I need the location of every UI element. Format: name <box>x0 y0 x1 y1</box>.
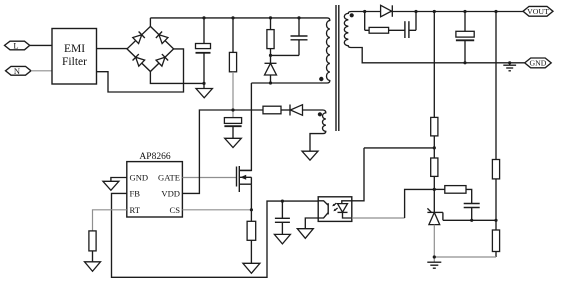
wire source down <box>250 184 252 221</box>
terminal L <box>5 41 30 51</box>
svg-text:FB: FB <box>130 189 141 199</box>
junction (204,17.9) <box>202 16 205 19</box>
capacitor C2 snubber <box>271 18 308 56</box>
junction (204,83.4) <box>202 82 205 85</box>
diode D4 VDD <box>281 105 303 116</box>
T1 secondary winding + VOUT rail <box>344 12 524 63</box>
svg-text:CS: CS <box>169 205 180 215</box>
junction (434.3,11.5) <box>433 10 436 13</box>
junction (465,11.5) <box>463 10 466 13</box>
IC U1 AP8266 <box>127 152 183 217</box>
VDD pin wire <box>182 110 263 193</box>
capacitor C1 bulk <box>196 18 211 84</box>
junction (270.5,17.9) <box>269 16 272 19</box>
wire opto anode up <box>352 148 435 201</box>
FB pin wire to bottom rail and opto <box>112 193 319 277</box>
resistor R7 current sense <box>243 221 260 273</box>
terminal GND <box>525 58 552 68</box>
wire EMI bottom to bridge right <box>97 49 184 92</box>
svg-text:GND: GND <box>130 173 149 183</box>
capacitor C4 FB <box>274 201 290 244</box>
junction (416,11.5) <box>414 10 417 13</box>
terminal VOUT <box>523 6 553 16</box>
resistor R1 startup <box>229 18 236 110</box>
terminal N <box>6 66 32 76</box>
resistor R5 sec snubber <box>365 12 405 34</box>
wire L to EMI <box>30 44 52 46</box>
polarity dot aux <box>318 112 322 116</box>
EMI filter box U2 <box>52 29 97 85</box>
svg-text:GATE: GATE <box>158 173 180 183</box>
svg-text:N: N <box>14 66 20 76</box>
resistor R13 <box>492 230 499 252</box>
phototransistor <box>327 203 329 214</box>
TL431 ref wire <box>443 212 496 220</box>
T1 aux winding <box>303 110 326 151</box>
junction (233,17.9) <box>231 16 234 19</box>
RT pin wire <box>93 210 127 231</box>
wire switch node <box>239 83 251 170</box>
wire bridge bottom to cap gnd <box>150 72 204 84</box>
MOSFET Q1 <box>237 166 252 192</box>
polarity dot secondary <box>350 13 354 17</box>
diode D6 output rectifier <box>381 5 393 16</box>
svg-text:GND: GND <box>530 59 547 68</box>
diode top-right <box>159 35 168 44</box>
GATE pin wire <box>182 177 236 179</box>
resistor R9 <box>431 12 438 159</box>
junction (434.3,257) <box>433 255 436 258</box>
ground aux <box>302 151 318 160</box>
svg-text:AP8266: AP8266 <box>139 152 170 162</box>
TL431 U4 <box>427 208 443 262</box>
ground <box>196 83 212 97</box>
resistor R2 snubber <box>267 18 274 56</box>
capacitor C6 sec snubber <box>405 12 416 39</box>
junction (233,110) <box>231 108 234 111</box>
wire N to EMI <box>31 70 52 72</box>
opto emitter ground <box>297 218 318 238</box>
VDD node cap C3 <box>224 110 241 148</box>
transformer core <box>336 5 339 131</box>
wire opto cathode to TL431 <box>352 217 405 219</box>
resistor R8 VDD <box>263 106 281 114</box>
svg-text:VDD: VDD <box>161 189 180 199</box>
resistor R11 comp <box>434 186 471 204</box>
diode bottom-left <box>136 57 145 66</box>
opto U3 box <box>318 197 352 222</box>
svg-text:Filter: Filter <box>62 56 87 68</box>
junction (465,62.8) <box>463 61 466 64</box>
junction (496,11.5) <box>494 10 497 13</box>
junction (270.5,55.4) <box>269 54 272 57</box>
junction (270.5,83) <box>269 81 272 84</box>
diode D5 snubber <box>265 55 277 83</box>
light arrows <box>334 203 338 210</box>
earth ground TL431 <box>427 262 441 268</box>
divider chain <box>434 12 499 258</box>
junction (299,17.9) <box>297 16 300 19</box>
wire HV rail + primary winding T1 primary <box>150 18 329 83</box>
junction (434.3,189.4) <box>433 188 436 191</box>
diode bottom-right <box>156 57 165 66</box>
GND pin wire + ground <box>103 178 127 191</box>
junction (434.3,147.9) <box>433 146 436 149</box>
capacitor C5 output electrolytic <box>456 12 474 63</box>
wire EMI to bridge left <box>97 48 128 50</box>
junction (471.7,220.3) <box>470 219 473 222</box>
junction (496,220.3) <box>494 219 497 222</box>
polarity dot primary <box>319 77 323 81</box>
wire bridge top to HV rail <box>149 18 151 27</box>
LED <box>342 201 352 204</box>
earth ground output <box>503 63 516 71</box>
bridge rectifier BD1 <box>127 26 174 71</box>
resistor R6 RT <box>85 231 101 271</box>
svg-text:L: L <box>13 41 18 51</box>
svg-text:EMI: EMI <box>64 43 85 55</box>
capacitor C7 comp <box>464 204 480 221</box>
diode top-left <box>133 35 142 44</box>
svg-text:VOUT: VOUT <box>527 7 549 16</box>
resistor R12 <box>492 160 499 179</box>
resistor R10 <box>431 158 438 212</box>
CS pin wire <box>182 209 251 211</box>
svg-text:RT: RT <box>130 205 141 215</box>
junction (364.7,11.5) <box>363 10 366 13</box>
junction (282.4,201.1) <box>281 200 284 203</box>
junction (251.4,209.8) <box>250 208 253 211</box>
junction (509.7,62.8) <box>508 61 511 64</box>
